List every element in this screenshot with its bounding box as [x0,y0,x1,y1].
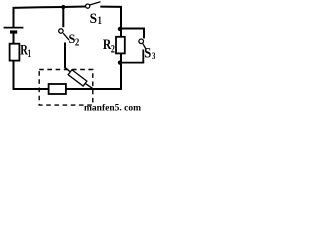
wire S3 branch lower vertical [142,50,144,63]
battery negative short plate [10,30,17,33]
wire S3 branch top horizontal [120,28,145,30]
wire diagonal lead out of tilted resistor to bottom wire [85,83,93,88]
black box dashed outline [39,70,93,106]
resistor (unknown, horizontal) in black box [49,84,66,94]
resistor (unknown, tilted) inside black box [68,70,87,86]
wire diagonal lead into tilted resistor [65,68,71,73]
wire top-left horizontal (battery top to S1) [13,7,86,8]
switch S1 lever (open, up-right) [90,2,101,5]
svg-text:manfen5. com: manfen5. com [84,104,141,114]
switch S2 pivot circle [59,29,63,33]
svg-text:S: S [90,11,97,27]
wire S2 branch upper vertical [62,7,64,27]
svg-text:S: S [144,45,151,61]
wire S2 branch lower vertical [64,43,66,69]
svg-text:1: 1 [98,13,102,27]
switch S3 lever (open, down-right) [143,44,146,50]
svg-text:2: 2 [75,38,79,49]
wire battery to R1 [13,34,15,44]
wire bottom horizontal left of unknown resistor [13,88,50,90]
svg-text:2: 2 [111,43,115,55]
wire left vertical (top corner to battery) [13,7,15,27]
node junction dot bottom of R2 branch [118,61,122,65]
svg-text:3: 3 [152,52,155,62]
wire right vertical top (corner to R2) [120,6,122,37]
node junction dot top of R2 branch [118,27,122,31]
wire bottom horizontal right of unknown resistor [66,88,122,90]
wire S3 branch return horizontal to junction [120,62,144,64]
wire top-right horizontal (S1 to right corner) [100,6,122,8]
switch S1 pivot circle [86,4,90,8]
battery positive long plate [4,27,24,29]
node junction dot on top wire for S2 branch [61,5,65,9]
wire R1 to bottom-left corner [13,61,15,90]
resistor R1 box [10,44,20,61]
switch S2 lever (open, down-right) [63,33,69,40]
resistor R2 box [116,37,125,54]
switch S3 pivot circle [139,39,144,44]
wire R2 bottom to bottom-right corner [120,53,122,90]
svg-text:1: 1 [28,46,31,60]
wire S3 branch upper vertical [143,28,145,39]
